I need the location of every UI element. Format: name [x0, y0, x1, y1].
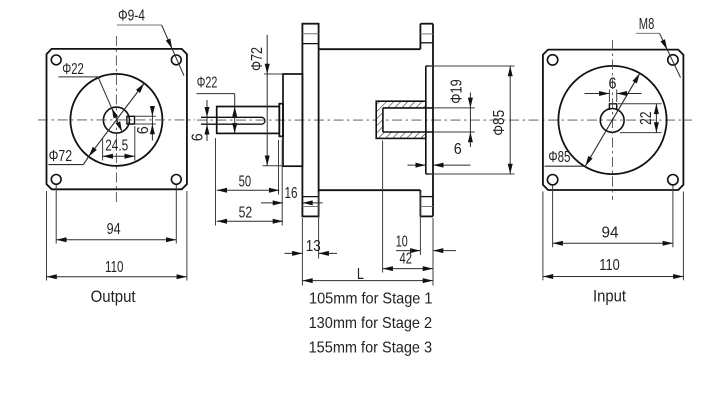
svg-text:Φ22: Φ22	[62, 61, 84, 78]
svg-text:Input: Input	[593, 288, 626, 306]
svg-text:Φ72: Φ72	[49, 148, 73, 165]
svg-text:Φ85: Φ85	[491, 110, 508, 136]
svg-text:110: 110	[599, 257, 620, 274]
svg-text:105mm for Stage 1: 105mm for Stage 1	[309, 290, 433, 307]
svg-text:6: 6	[454, 141, 462, 158]
svg-text:130mm for Stage 2: 130mm for Stage 2	[309, 315, 433, 332]
svg-text:6: 6	[609, 75, 617, 92]
svg-text:50: 50	[239, 173, 252, 190]
svg-text:Φ9-4: Φ9-4	[118, 8, 145, 25]
svg-text:M8: M8	[639, 16, 655, 33]
svg-text:Φ19: Φ19	[449, 79, 466, 104]
svg-text:L: L	[357, 266, 364, 283]
svg-text:Output: Output	[91, 288, 136, 306]
svg-text:Φ85: Φ85	[548, 149, 570, 166]
svg-text:94: 94	[107, 221, 121, 238]
svg-text:6: 6	[135, 126, 152, 134]
svg-text:Φ72: Φ72	[249, 47, 266, 71]
svg-text:24.5: 24.5	[105, 138, 128, 155]
svg-text:Φ22: Φ22	[197, 75, 218, 92]
svg-text:110: 110	[105, 259, 124, 276]
svg-text:13: 13	[306, 238, 321, 255]
svg-text:16: 16	[285, 185, 298, 202]
svg-text:155mm for Stage 3: 155mm for Stage 3	[309, 339, 433, 356]
svg-text:10: 10	[396, 233, 408, 250]
svg-text:6: 6	[190, 133, 207, 141]
svg-text:52: 52	[239, 204, 253, 221]
svg-text:22: 22	[638, 111, 655, 125]
svg-text:94: 94	[602, 224, 619, 241]
